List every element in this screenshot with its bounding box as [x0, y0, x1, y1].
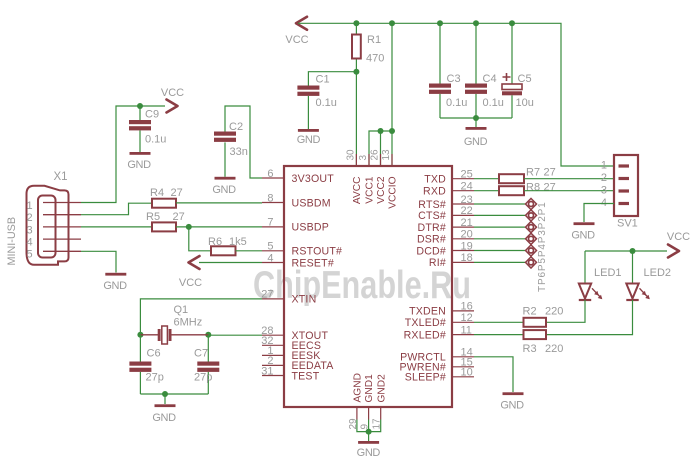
- svg-text:SLEEP#: SLEEP#: [405, 372, 446, 384]
- resistor R3 220: [523, 330, 564, 355]
- svg-text:AGND: AGND: [353, 373, 364, 402]
- resistor R2 220: [523, 306, 564, 327]
- pin 19 stub right: [452, 240, 474, 252]
- test pad TP4: [474, 222, 537, 233]
- svg-text:AVCC: AVCC: [352, 177, 363, 205]
- svg-text:220: 220: [545, 343, 563, 355]
- ground USB: [103, 273, 127, 292]
- junction gnd bottom: [366, 429, 372, 435]
- resistor R6 1k5: [208, 236, 247, 255]
- test pad TP2: [474, 245, 537, 256]
- svg-text:USBDM: USBDM: [292, 197, 331, 209]
- wire crystal gnd bus: [140, 393, 208, 395]
- test pad TP6: [474, 198, 537, 209]
- svg-text:C4: C4: [483, 73, 497, 85]
- wire TXLED pin12 to R2: [474, 321, 524, 323]
- ground PWRCTL: [500, 392, 524, 411]
- test pad TP5: [474, 210, 537, 221]
- pin 10 stub right: [452, 367, 474, 379]
- svg-text:33n: 33n: [230, 146, 248, 158]
- svg-text:Q1: Q1: [174, 304, 189, 316]
- svg-text:0.1u: 0.1u: [483, 97, 504, 109]
- svg-text:27p: 27p: [194, 372, 212, 384]
- svg-text:1: 1: [601, 160, 607, 172]
- svg-text:24: 24: [461, 181, 473, 193]
- svg-text:3V3OUT: 3V3OUT: [292, 173, 335, 185]
- wire R8 to SV1 pin3: [524, 190, 614, 192]
- wire R4 to USBDM pin8: [176, 202, 262, 204]
- svg-text:C1: C1: [316, 74, 330, 86]
- wire SV1 pin4 gnd: [584, 204, 614, 223]
- svg-text:5: 5: [267, 241, 273, 253]
- wire AGND GND1 GND2: [357, 420, 381, 432]
- svg-text:2: 2: [26, 212, 32, 224]
- svg-text:GND: GND: [571, 230, 595, 242]
- svg-text:7: 7: [267, 217, 273, 229]
- ground crystal: [152, 394, 176, 424]
- wire XTOUT pin28: [208, 334, 262, 336]
- wire USB gnd: [81, 251, 116, 272]
- wire net VCC top rail: [298, 23, 614, 166]
- svg-text:30: 30: [345, 149, 356, 161]
- svg-text:C6: C6: [147, 348, 161, 360]
- svg-text:26: 26: [370, 149, 381, 161]
- IC pin names top vertical: [352, 176, 399, 209]
- junction VBUS-C9: [137, 103, 143, 109]
- wire AVCC pin30: [355, 72, 357, 166]
- junction crystal gnd: [162, 391, 168, 397]
- svg-text:C5: C5: [518, 73, 532, 85]
- pin 28 stub left: [261, 325, 284, 337]
- capacitor C6 27p: [129, 335, 163, 394]
- svg-text:3: 3: [601, 185, 607, 197]
- wire LED VCC rail: [585, 250, 667, 252]
- svg-text:RXLED#: RXLED#: [404, 329, 446, 341]
- svg-text:3: 3: [358, 155, 369, 161]
- svg-text:10: 10: [461, 367, 473, 379]
- X1 pin 4: [26, 237, 81, 249]
- svg-text:R8: R8: [526, 182, 540, 194]
- resistor R8 27: [499, 182, 556, 196]
- wire LED2 cathode to R3: [546, 300, 633, 335]
- svg-text:27: 27: [544, 167, 556, 179]
- pin 17 stub bottom: [372, 407, 383, 430]
- svg-text:C9: C9: [145, 109, 159, 121]
- svg-text:25: 25: [461, 169, 473, 181]
- capacitor C2 33n: [214, 121, 248, 177]
- svg-text:VCC: VCC: [285, 34, 308, 46]
- pin 30 stub top: [345, 149, 356, 166]
- capacitor C7 27p: [194, 335, 219, 394]
- svg-text:6: 6: [267, 168, 273, 180]
- svg-text:VCCIO: VCCIO: [388, 176, 399, 208]
- capacitor C9 0.1u: [129, 106, 166, 152]
- connector X1 inner: [38, 196, 56, 258]
- IC pin names left: [292, 173, 343, 382]
- svg-text:C2: C2: [229, 121, 243, 133]
- svg-text:R2: R2: [523, 306, 537, 318]
- wire USBDP to R6: [189, 227, 211, 251]
- resistor R4 27: [150, 187, 183, 208]
- resistor R7 27: [499, 167, 556, 184]
- junction rail-R1: [353, 20, 359, 26]
- connector SV1: [601, 155, 638, 230]
- svg-text:27: 27: [261, 289, 273, 301]
- pin 7 stub left: [262, 217, 284, 229]
- IC pin names bottom vertical: [353, 373, 388, 402]
- junction rail-C3: [437, 20, 443, 26]
- pin 6 stub left: [262, 168, 284, 180]
- pin 21 stub right: [452, 217, 474, 229]
- resistor R5 27: [146, 211, 185, 231]
- wire 3V3OUT to C2: [225, 106, 262, 178]
- ground C3 C4 C5: [464, 118, 488, 148]
- svg-text:X1: X1: [54, 171, 68, 183]
- pin 15 stub right: [452, 357, 474, 369]
- svg-text:21: 21: [461, 217, 473, 229]
- svg-text:R4: R4: [150, 187, 164, 199]
- svg-text:16: 16: [461, 301, 473, 313]
- svg-text:DSR#: DSR#: [417, 234, 446, 246]
- pin 12 stub right: [452, 312, 474, 324]
- svg-text:10u: 10u: [516, 97, 534, 109]
- pin 11 stub right: [452, 324, 474, 336]
- VCC arrow LEDs: [667, 231, 690, 258]
- pin 32 stub left: [261, 335, 284, 347]
- svg-text:23: 23: [461, 194, 473, 206]
- pin 25 stub right: [452, 169, 474, 181]
- ground SV1: [571, 222, 595, 241]
- svg-text:TXDEN: TXDEN: [409, 306, 446, 318]
- svg-text:LED1: LED1: [594, 267, 622, 279]
- svg-text:3: 3: [26, 224, 32, 236]
- wire RXLED pin11 to R3: [474, 334, 524, 336]
- IC pin names right: [399, 174, 446, 384]
- pin 13 stub top: [381, 149, 392, 166]
- junction rail-C4: [473, 20, 479, 26]
- X1 pin 1: [26, 200, 81, 212]
- svg-text:R3: R3: [523, 343, 537, 355]
- wire USBDM from USB pin2: [81, 203, 152, 215]
- svg-text:GND: GND: [297, 134, 321, 146]
- svg-text:6MHz: 6MHz: [174, 317, 203, 329]
- svg-text:RXD: RXD: [423, 186, 446, 198]
- pin 4 stub left: [262, 252, 284, 264]
- svg-text:DCD#: DCD#: [416, 245, 446, 257]
- svg-text:TXLED#: TXLED#: [405, 317, 446, 329]
- capacitor C4 0.1u: [465, 23, 504, 118]
- svg-text:220: 220: [545, 306, 563, 318]
- capacitor C3 0.1u: [429, 23, 467, 118]
- wire TXD pin25 to R7: [474, 178, 499, 180]
- IC FT232BM body: [284, 166, 452, 407]
- X1 pin 3: [26, 224, 81, 236]
- svg-text:VCC1: VCC1: [365, 176, 376, 204]
- ground C2: [212, 177, 236, 196]
- svg-text:ChipEnable.Ru: ChipEnable.Ru: [253, 264, 471, 307]
- wire C3 C4 C5 ground bus: [440, 117, 512, 119]
- pin 18 stub right: [452, 252, 474, 264]
- svg-text:13: 13: [381, 149, 392, 161]
- pin 23 stub right: [452, 194, 474, 206]
- svg-text:27: 27: [171, 187, 183, 199]
- svg-text:2: 2: [601, 172, 607, 184]
- wire VCC pins 3 26 13: [369, 23, 392, 166]
- wire USBDP from USB pin3: [81, 226, 152, 228]
- svg-text:GND2: GND2: [376, 374, 387, 403]
- svg-text:27: 27: [544, 182, 556, 194]
- svg-text:GND: GND: [500, 400, 524, 412]
- svg-text:RESET#: RESET#: [292, 257, 334, 269]
- junction rail-VCCpins: [389, 20, 395, 26]
- VCC arrow top-left: [285, 17, 308, 46]
- svg-text:19: 19: [461, 240, 473, 252]
- VCC arrow at C9: [161, 87, 184, 113]
- svg-text:R1: R1: [367, 34, 381, 46]
- svg-text:12: 12: [461, 312, 473, 324]
- pin 9 stub bottom: [360, 407, 371, 430]
- junction rail LED2: [630, 248, 636, 254]
- svg-text:GND: GND: [212, 184, 236, 196]
- svg-text:R7: R7: [526, 167, 540, 179]
- connector X1 MINI-USB shell: [27, 186, 69, 265]
- svg-text:TP6P5P4P3P2P1: TP6P5P4P3P2P1: [537, 201, 548, 292]
- svg-text:TXD: TXD: [424, 174, 446, 186]
- crystal Q1 6MHz: [140, 304, 208, 344]
- pin 29 stub bottom: [348, 407, 359, 430]
- svg-text:GND: GND: [464, 136, 488, 148]
- svg-text:4: 4: [26, 237, 32, 249]
- wire RESET pin4 to VCC: [199, 262, 262, 264]
- svg-text:31: 31: [261, 365, 273, 377]
- svg-text:1k5: 1k5: [229, 236, 247, 248]
- wire VBUS to VCC: [81, 106, 165, 203]
- svg-text:GND: GND: [127, 159, 151, 171]
- svg-text:R6: R6: [208, 236, 222, 248]
- svg-text:GND: GND: [357, 447, 381, 459]
- svg-text:VCC: VCC: [179, 277, 202, 289]
- svg-text:0.1u: 0.1u: [316, 97, 337, 109]
- ground C9: [127, 152, 151, 171]
- svg-text:GND1: GND1: [364, 374, 375, 403]
- svg-text:8: 8: [267, 192, 273, 204]
- pin 22 stub right: [452, 205, 474, 217]
- wire RXD pin24 to R8: [474, 190, 499, 192]
- resistor R1 470: [352, 23, 384, 71]
- svg-text:VCC: VCC: [161, 87, 184, 99]
- pin 3 stub top: [358, 154, 369, 166]
- test pad TP1: [474, 257, 537, 268]
- pin 27 stub left: [261, 289, 284, 301]
- svg-text:1: 1: [26, 200, 32, 212]
- pin 26 stub top: [370, 149, 381, 166]
- svg-text:LED2: LED2: [644, 267, 672, 279]
- pin 5 stub left: [262, 241, 284, 253]
- wire LED1 cathode to R2: [546, 300, 585, 322]
- svg-text:GND: GND: [152, 412, 176, 424]
- svg-text:C7: C7: [194, 348, 208, 360]
- junction crystal right: [205, 332, 211, 338]
- svg-text:VCC2: VCC2: [376, 176, 387, 204]
- LED2: [626, 251, 671, 300]
- svg-text:470: 470: [366, 53, 384, 65]
- pin 2 stub left: [262, 355, 284, 367]
- pin 31 stub left: [261, 365, 284, 377]
- svg-text:18: 18: [461, 252, 473, 264]
- svg-text:SV1: SV1: [617, 218, 638, 230]
- svg-text:TEST: TEST: [292, 370, 320, 382]
- junction gndbus-C4: [473, 115, 479, 121]
- svg-text:22: 22: [461, 205, 473, 217]
- svg-text:GND: GND: [103, 280, 127, 292]
- junction R1-C1-AVCC: [353, 69, 359, 75]
- pin 14 stub right: [452, 347, 474, 359]
- pin 24 stub right: [452, 181, 474, 193]
- wire PWRCTL pin14 to gnd: [474, 357, 513, 392]
- svg-text:XTIN: XTIN: [292, 294, 317, 306]
- capacitor C5 10u polarized: [502, 23, 534, 118]
- svg-text:0.1u: 0.1u: [446, 97, 467, 109]
- svg-text:CTS#: CTS#: [418, 210, 446, 222]
- svg-text:RTS#: RTS#: [418, 199, 446, 211]
- ground C1: [297, 129, 321, 146]
- pin 8 stub left: [262, 192, 284, 204]
- svg-text:5: 5: [26, 249, 32, 261]
- junction USBDP-R6: [186, 224, 192, 230]
- junction pin26: [378, 128, 384, 134]
- svg-text:DTR#: DTR#: [418, 222, 446, 234]
- svg-text:11: 11: [461, 324, 472, 336]
- svg-text:RI#: RI#: [429, 257, 446, 269]
- svg-text:R5: R5: [146, 211, 160, 223]
- LED1: [579, 251, 622, 300]
- pin 1 stub left: [262, 345, 284, 357]
- svg-text:4: 4: [267, 252, 273, 264]
- wire R5 to USBDP pin7: [176, 226, 262, 228]
- wire XTIN pin27: [140, 299, 262, 335]
- test pad TP3: [474, 233, 537, 244]
- junction rail-C5: [509, 20, 515, 26]
- wire R6 to RSTOUT pin5: [236, 250, 263, 252]
- svg-text:RSTOUT#: RSTOUT#: [292, 246, 343, 258]
- ground IC bottom: [357, 432, 381, 459]
- svg-text:USBDP: USBDP: [292, 222, 330, 234]
- svg-text:27p: 27p: [146, 372, 164, 384]
- svg-text:MINI-USB: MINI-USB: [6, 217, 18, 266]
- VCC arrow at RESET: [179, 256, 202, 289]
- wire R7 to SV1 pin2: [524, 178, 614, 180]
- X1 pin 5: [26, 249, 81, 261]
- pin 20 stub right: [452, 229, 474, 241]
- svg-text:VCC: VCC: [667, 231, 690, 243]
- svg-text:20: 20: [461, 229, 473, 241]
- capacitor C1 0.1u: [297, 72, 356, 129]
- X1 pin 2: [26, 212, 81, 224]
- junction pin13: [389, 128, 395, 134]
- junction crystal left: [137, 332, 143, 338]
- svg-text:C3: C3: [447, 73, 461, 85]
- svg-text:0.1u: 0.1u: [145, 134, 166, 146]
- svg-text:27: 27: [173, 211, 185, 223]
- pin 16 stub right: [452, 301, 474, 313]
